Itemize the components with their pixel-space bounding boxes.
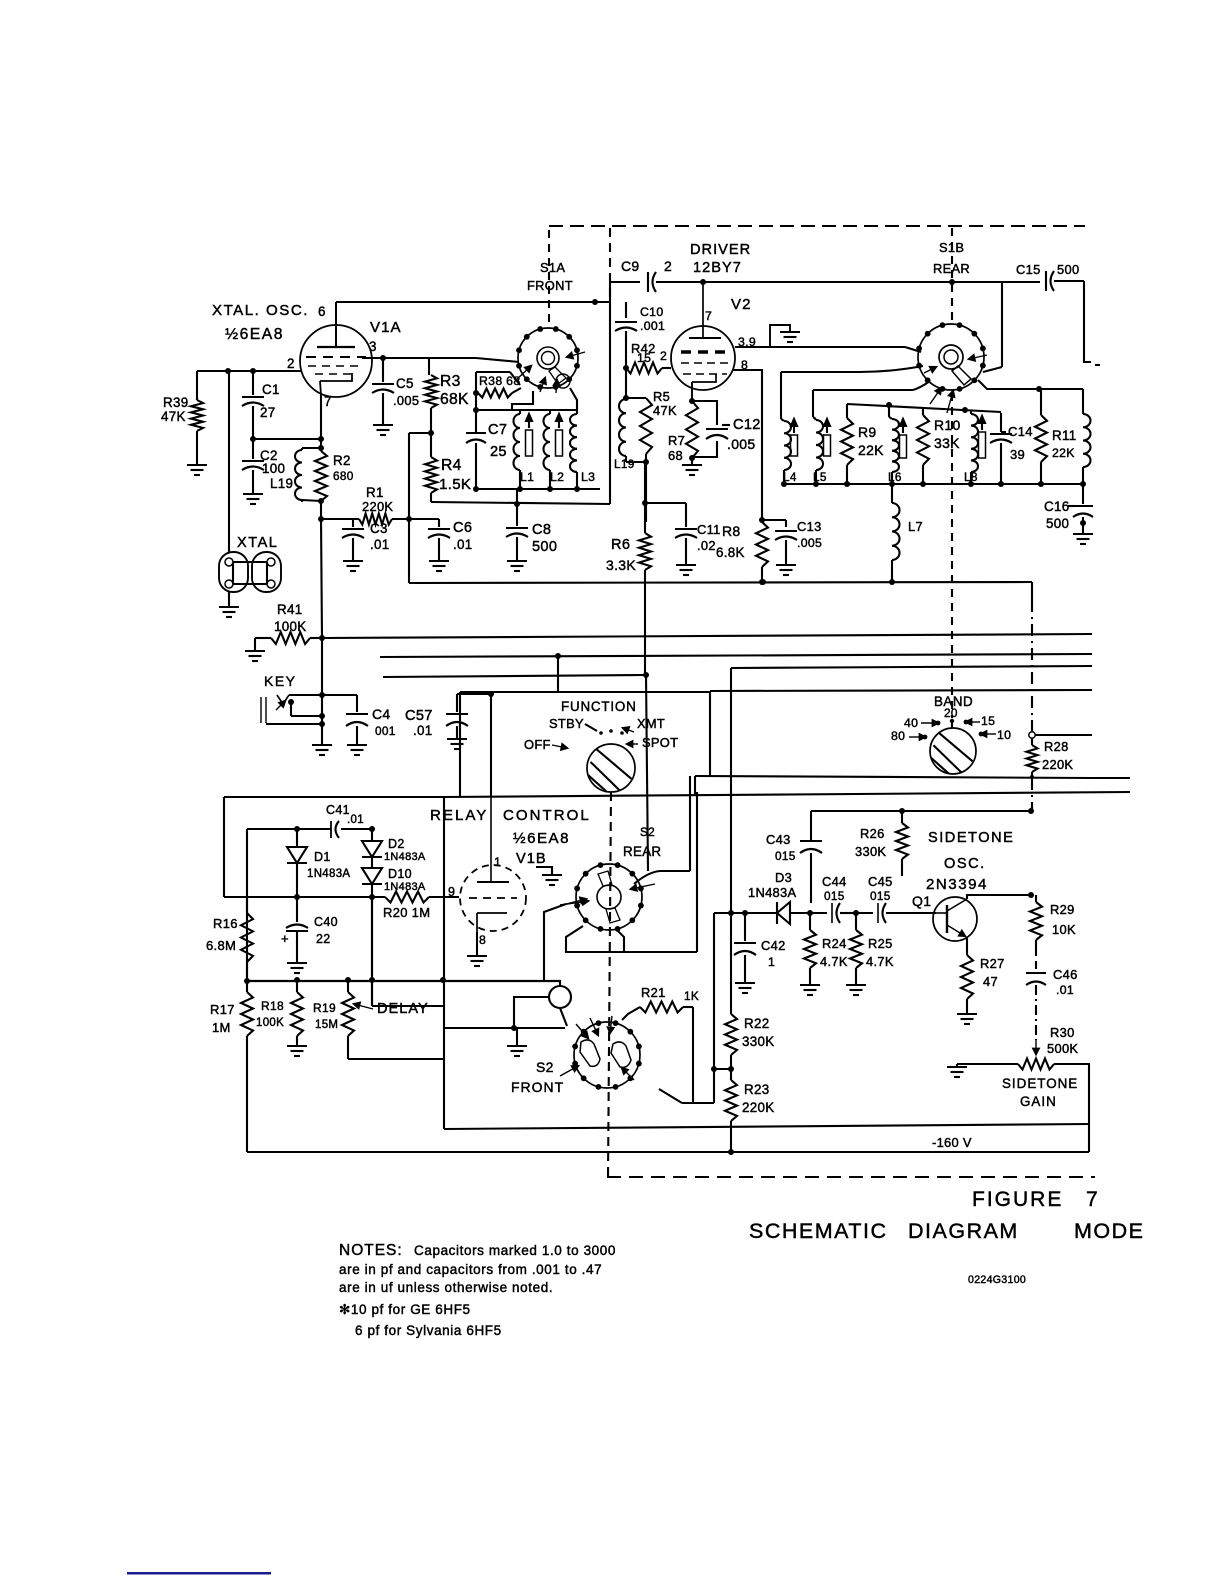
wire box bottom to C8 [516,489,518,504]
resistor R29 [1030,895,1042,948]
svg-text:39: 39 [1010,447,1025,462]
svg-text:L3: L3 [581,470,595,484]
ground XTAL [219,607,239,617]
svg-text:100K: 100K [256,1017,284,1029]
svg-text:L7: L7 [908,519,923,534]
svg-text:1N483A: 1N483A [748,885,796,900]
resistor R22 [725,913,737,1069]
node dot R8 bottom [759,579,765,585]
svg-text:R38 68: R38 68 [479,374,520,388]
svg-text:1N483A: 1N483A [384,881,426,893]
label L2 [550,470,564,484]
wire s2f left bus [444,1027,565,1029]
wire R28 right [1035,734,1092,736]
svg-text:SIDETONE: SIDETONE [1002,1076,1078,1091]
svg-text:XMT: XMT [637,716,665,731]
resistor R6 [639,462,651,674]
resistor R10 [917,408,929,484]
tube V1B cathode [477,913,507,932]
node dot R38 left [473,390,479,396]
rotary switch S1B [916,322,986,392]
svg-text:OFF: OFF [524,737,551,752]
wire key tip [288,692,357,705]
svg-text:STBY: STBY [549,716,584,731]
ground C5 [373,425,393,435]
wire x321 riser mid [321,519,322,638]
label L5 [813,470,827,484]
svg-text:C5: C5 [396,376,414,391]
label C11 .02 [697,522,721,553]
inductor L2 [544,410,551,489]
tube V2 grid1 [681,350,729,354]
resistor R16 [241,897,253,981]
node dots c41 [294,826,375,832]
wire C9 right [703,281,1002,283]
svg-text:10K: 10K [1052,922,1076,937]
svg-text:-160 V: -160 V [932,1135,972,1150]
key jack [261,695,289,723]
svg-text:33K: 33K [934,435,960,451]
label C43 015 [766,832,796,863]
wire R19 bottom [348,1058,444,1060]
inductor L4 [781,419,791,484]
svg-text:OSC.: OSC. [944,856,986,872]
tube V1B grid [469,897,517,899]
label R25 4.7K [866,936,894,969]
svg-text:DIAGRAM: DIAGRAM [908,1219,1019,1243]
wire pin9 row [224,894,385,900]
tube V2 plate [689,282,721,338]
tube V2 grid3 [683,373,727,375]
pin 2 label [287,356,295,371]
label BAND [934,694,973,709]
label FIGURE 7 [972,1188,1098,1211]
wire R30 right [1054,1064,1089,1152]
relay box right lower [443,1006,445,1129]
label L19 right [614,457,635,471]
svg-text:8: 8 [479,933,486,947]
resistor R7 [686,401,698,464]
rail y690 [710,690,1092,691]
label 2N3394 [926,876,988,893]
S1B arrows [924,355,987,413]
node dot d3 right [807,910,813,916]
svg-text:500K: 500K [1047,1041,1078,1056]
wire sidetone top [811,808,1034,814]
label Q1 [912,893,931,909]
label S2 FRONT [511,1059,564,1095]
resistor R4 [425,433,437,502]
label R8 6.8K [716,523,745,560]
wire c41 row [247,829,372,981]
svg-text:9: 9 [448,885,455,899]
rail y776 [695,776,1130,795]
label R29 10K [1050,902,1076,937]
label R39 47K [161,395,188,424]
label S1B REAR [933,240,970,276]
label 10 [979,728,1012,742]
svg-text:C6: C6 [453,520,472,536]
label XTAL [237,535,278,551]
wire Q1 emitter [966,938,968,955]
wire V2 to S1B [735,347,921,352]
label R30 500K [1047,1025,1078,1056]
wire xtal up [228,371,230,553]
resistor R19 [342,980,354,1059]
wire lamp feed [511,997,549,1031]
label C57 .01 [405,708,433,738]
label R22 330K [742,1016,774,1049]
label 15 [964,714,996,728]
svg-text:R21: R21 [641,985,666,1000]
svg-text:R29: R29 [1050,902,1075,917]
notes line 5 [355,1323,502,1338]
arrow R19 [354,1003,373,1009]
ground R24 [800,985,820,995]
dashed enclosure bottom edge [607,1176,1095,1178]
svg-text:C46: C46 [1053,967,1078,982]
rotary S1A rotor [537,347,570,388]
svg-text:R27: R27 [980,956,1005,971]
svg-text:500: 500 [1057,262,1079,277]
relay box left [223,797,225,897]
resistor R2 [315,445,327,516]
resistor R18 [291,980,303,1045]
capacitor C9 [648,272,703,292]
capacitor C42 [734,913,756,982]
svg-text:SIDETONE: SIDETONE [928,830,1014,846]
node dot V2 plate [700,279,706,285]
svg-text:R24: R24 [822,936,847,951]
tube V2 envelope [671,326,735,390]
svg-text:100K: 100K [274,619,306,634]
label R41 100K [274,602,306,634]
svg-text:.01: .01 [347,814,364,826]
svg-text:.005: .005 [797,536,822,550]
svg-text:500: 500 [1046,516,1069,531]
lamp [549,986,571,1026]
svg-text:R22: R22 [744,1016,769,1031]
label L1 [520,470,534,484]
svg-text:47K: 47K [161,409,186,424]
node dot R7 bot [689,455,695,461]
S2F arrows [560,1016,634,1080]
dashed link FUNCTION down [608,792,611,1177]
svg-text:.01: .01 [453,537,473,552]
band knob [930,728,976,774]
resistor R8 [756,520,768,582]
capacitor C4 [346,695,368,744]
wire pin8 down [733,370,762,520]
label C46 .01 [1053,967,1078,997]
svg-text:V1A: V1A [370,319,402,336]
label FUNCTION [561,699,637,714]
label R6 3.3K [606,537,636,573]
wire S2R right top [634,871,690,884]
svg-text:R9: R9 [858,424,877,440]
wire R30 left gnd [957,1064,1018,1066]
svg-text:2: 2 [664,258,672,274]
inductor L-out [1083,414,1091,484]
S2R arrows [560,884,655,905]
label C41 .01 [326,803,364,826]
wire pin3 right [362,357,429,359]
label D3 1N483A [748,870,796,900]
svg-text:C13: C13 [797,519,822,534]
svg-text:7: 7 [1086,1188,1098,1211]
label 1/2 6EA8 (V1A) [225,326,284,343]
svg-text:.01: .01 [413,723,433,738]
svg-text:C9: C9 [621,258,640,274]
label R1 220K [362,485,393,514]
svg-text:NOTES:: NOTES: [339,1242,403,1259]
resistor R20 [385,892,459,903]
wire row top rail [847,402,1001,417]
wire S2R right low [624,951,697,953]
wire box top to S1A [476,372,520,385]
wire x610 down [609,302,611,504]
svg-text:.01: .01 [1056,983,1074,997]
resistor R38 [478,388,521,398]
svg-text:015: 015 [775,849,796,863]
resistor R30 [1018,1059,1054,1070]
tube V1B envelope [460,865,526,931]
capacitor C3 [342,519,364,560]
ground C40 [287,963,307,973]
ground V1B grid ref [536,867,562,885]
capacitor C57 [446,694,468,738]
label C8 500 [532,522,557,555]
ground C57 [447,739,467,749]
svg-text:DELAY: DELAY [377,1001,429,1017]
dash-dot link to R30 [1033,985,1038,1054]
notes line 4 [339,1302,471,1317]
wire S2R staircase [566,926,624,952]
label R42 15 [631,341,656,365]
svg-text:68K: 68K [440,391,469,408]
svg-text:1N483A: 1N483A [384,851,426,863]
notes line 1 [339,1242,616,1259]
label R28 220K [1042,739,1073,772]
function box [460,692,710,797]
svg-text:D3: D3 [775,870,792,885]
svg-text:✻10 pf for GE 6HF5: ✻10 pf for GE 6HF5 [339,1302,471,1317]
wire R41 left down [254,638,256,650]
node dot 1039 389 [1036,386,1042,392]
label D1 1N483A [307,850,350,880]
node dot pin3 [380,355,386,361]
label 1/2 6EA8 relay [513,830,570,847]
dashed link S1B to BAND [951,393,953,718]
svg-text:XTAL. OSC.: XTAL. OSC. [212,302,309,319]
label KEY [264,673,297,689]
label R11 22K [1052,428,1076,460]
resistor R24 [804,913,816,984]
svg-text:C11: C11 [697,522,721,537]
ground R41 [245,651,265,661]
rotary switch S1A [516,326,580,390]
resistor R9 [841,404,853,484]
svg-text:.01: .01 [370,537,390,552]
svg-text:CONTROL: CONTROL [503,807,591,824]
svg-text:½6EA8: ½6EA8 [225,326,284,343]
svg-text:80: 80 [891,729,905,743]
wire key gnd [321,724,323,744]
svg-text:S2: S2 [536,1059,554,1075]
wire L7 bottom rail [409,519,1032,585]
label R26 330K [855,826,886,859]
capacitor C14 [990,413,1012,484]
node dot R41 right [319,635,325,641]
label C6 .01 [453,520,473,552]
svg-text:R1: R1 [366,485,384,500]
resistor R39 [191,371,203,465]
svg-text:L19: L19 [614,457,635,471]
capacitor C13 [762,520,797,564]
svg-text:Q1: Q1 [912,893,931,909]
svg-text:4.7K: 4.7K [820,954,848,969]
dashed link S1A [548,230,550,322]
svg-text:C7: C7 [488,422,507,438]
ground C42 [735,983,755,993]
node dot R5 bot [643,459,649,465]
wire V1B plate up [490,694,492,797]
capacitor C8 [506,504,528,560]
label C16 500 [1044,499,1074,531]
svg-text:R26: R26 [860,826,885,841]
svg-text:R19: R19 [313,1001,336,1015]
svg-text:0224G3100: 0224G3100 [968,1274,1026,1286]
resistor R27 [961,955,973,1013]
svg-text:R16: R16 [213,916,238,931]
svg-text:22K: 22K [1052,446,1075,460]
svg-text:015: 015 [824,889,845,903]
ground C2 [243,494,263,504]
tube V2 grid2 [681,362,729,364]
svg-text:C3: C3 [370,521,388,536]
label R24 4.7K [820,936,848,969]
capacitor C6 [428,519,450,560]
svg-text:330K: 330K [855,844,886,859]
rotary S1B rotor [939,345,971,385]
label L8 [964,470,978,484]
slug L8 [979,416,986,458]
svg-text:1: 1 [494,855,501,869]
svg-text:15M: 15M [315,1019,338,1031]
inductor L1 [514,410,521,489]
resistor R28 [1027,738,1038,777]
label R10 33K [934,417,961,451]
node dot cathode [689,398,695,404]
wire s2f contact slant [659,1089,682,1103]
svg-text:.02: .02 [697,538,716,553]
pin 3 label [369,339,377,354]
rail y795 [444,792,1130,797]
wire rail 389 to coil [1039,389,1083,414]
node dots bus [781,481,1086,487]
svg-text:R17: R17 [210,1002,235,1017]
label STBY [549,716,597,731]
svg-text:3: 3 [369,339,377,354]
svg-text:R25: R25 [868,936,893,951]
label C13 .005 [797,519,822,550]
svg-text:C4: C4 [372,706,391,722]
svg-text:C42: C42 [761,938,786,953]
diode D10 [362,868,382,897]
ground C11 [676,565,696,575]
label DRIVER 12BY7 [690,242,751,276]
svg-text:22K: 22K [858,442,884,458]
label R17 1M [210,1002,235,1035]
rail y636 [322,634,1092,638]
resistor R3 [425,358,437,433]
inductor L6 [889,417,899,484]
svg-text:S1A: S1A [540,260,565,275]
wire S2R feed [544,898,586,981]
label XMT [623,716,665,732]
label XTAL. OSC. [212,302,309,319]
svg-text:2: 2 [660,349,667,363]
svg-text:XTAL: XTAL [237,535,278,551]
capacitor C40 [286,897,308,962]
svg-text:1M: 1M [212,1020,231,1035]
crystal XTAL holder [219,552,281,592]
svg-text:R28: R28 [1044,739,1069,754]
svg-text:1.5K: 1.5K [439,476,471,493]
slug L6 [900,419,907,458]
label V2 [731,296,751,313]
svg-text:D10: D10 [388,867,412,881]
resistor R17 [241,981,253,1152]
label OSC. [944,856,986,872]
wire R1 right [392,518,439,520]
svg-text:R39: R39 [163,395,188,410]
node dot R3 bot [428,430,434,436]
node dot C1 bot [250,436,324,442]
capacitor C7 [466,431,486,452]
inductor L8 [971,410,978,484]
node R28 bottom [1030,775,1034,779]
wire R1 left [302,500,359,519]
rail y677 [383,672,649,678]
svg-text:R5: R5 [653,389,670,404]
svg-text:REAR: REAR [933,261,970,276]
dashed link S1B top [951,228,953,320]
svg-text:FUNCTION: FUNCTION [561,699,637,714]
label L19 [270,476,293,491]
function knob [587,744,635,792]
svg-text:68: 68 [668,448,683,463]
label C15 500 [1016,262,1079,277]
capacitor C12 [706,429,728,439]
label C1 27 [260,382,280,420]
svg-text:are in pf and capacitors from: are in pf and capacitors from .001 to .4… [339,1262,602,1277]
label C42 1 [761,938,786,969]
capacitor C5 [372,358,394,424]
node dot C8 tap [514,501,520,507]
ground C13 [776,565,796,575]
svg-text:R6: R6 [611,537,630,553]
svg-text:KEY: KEY [264,673,297,689]
wire lamp left [559,980,561,986]
svg-text:40: 40 [904,716,918,730]
ground S2F [507,1028,527,1056]
svg-text:R23: R23 [744,1082,769,1097]
svg-text:47: 47 [983,974,998,989]
svg-text:20: 20 [944,706,958,720]
rail y668 [731,666,1092,668]
resistor R23 [725,1069,737,1152]
